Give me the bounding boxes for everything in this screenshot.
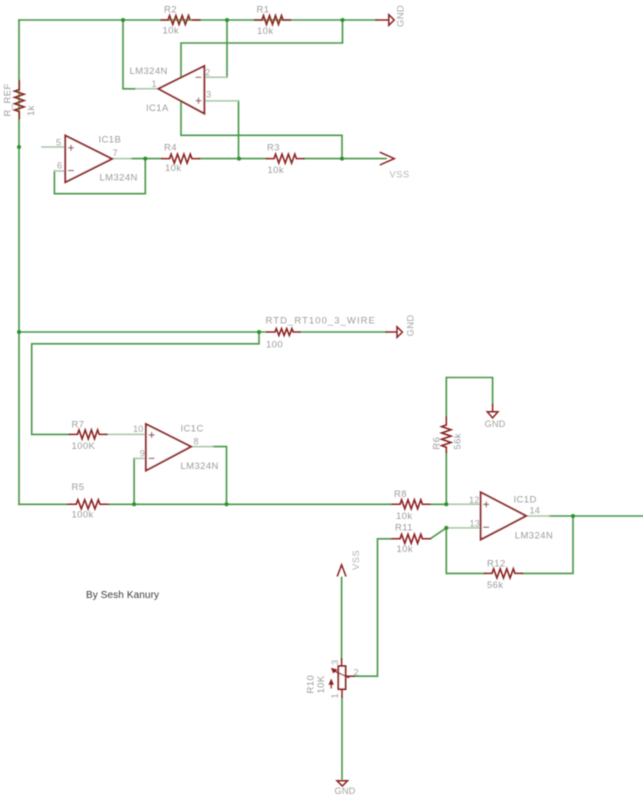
lead R7 bbox=[70, 433, 108, 435]
svg-text:R3: R3 bbox=[267, 143, 280, 154]
pin stub IC1D out bbox=[526, 515, 549, 517]
op-amp IC1B bbox=[65, 136, 112, 183]
junction (134.1,504.3) bbox=[132, 502, 136, 506]
wire R11 diagonal bbox=[431, 528, 447, 539]
wire VSS down to pot bbox=[341, 578, 343, 660]
ground symbol mid bbox=[397, 327, 402, 338]
wire RTD row bbox=[19, 331, 386, 333]
wire left rail to R5 bbox=[19, 503, 68, 505]
resistor R7 zigzag bbox=[77, 430, 99, 439]
wire RTD third wire bbox=[32, 332, 259, 434]
pin stub IC1C out bbox=[191, 446, 213, 448]
svg-text:2: 2 bbox=[205, 68, 210, 78]
svg-text:LM324N: LM324N bbox=[515, 531, 553, 542]
potentiometer R10 wiper arrow bbox=[329, 669, 349, 689]
wire pin9 vertical bbox=[133, 458, 135, 504]
lead R4 bbox=[162, 158, 200, 160]
wire IC1D out row bbox=[549, 515, 643, 517]
lead VSS to pot pin3 bbox=[341, 659, 343, 666]
IC1B plus bbox=[68, 145, 74, 151]
wire pin2 vertical bbox=[226, 20, 228, 77]
resistor R12 zigzag bbox=[492, 569, 515, 578]
svg-text:R6: R6 bbox=[432, 437, 443, 450]
supply VSS arrow up bbox=[337, 565, 346, 577]
svg-text:100k: 100k bbox=[72, 509, 94, 520]
junction (573.5,515) bbox=[571, 514, 575, 518]
svg-text:10k: 10k bbox=[396, 511, 413, 522]
pin stub IC1C pin9 bbox=[134, 457, 146, 459]
lead R12 bbox=[485, 572, 523, 574]
junction (239,158.6) bbox=[237, 157, 241, 161]
lead pot pin1 bbox=[341, 689, 343, 697]
lead R6 bbox=[445, 417, 447, 453]
lead R_REF bbox=[18, 81, 20, 119]
op-amp IC1D bbox=[481, 492, 526, 539]
lead R5 bbox=[68, 503, 108, 505]
IC1D minus bbox=[483, 526, 489, 528]
svg-text:10k: 10k bbox=[397, 544, 414, 555]
pin stub IC1D pin12 bbox=[446, 503, 480, 505]
lead R2 bbox=[161, 19, 200, 21]
wire IC1B feedback loop bbox=[54, 159, 145, 194]
lead R8 bbox=[392, 503, 430, 505]
lead RTD bbox=[267, 331, 300, 333]
pin stub IC1A pin2 bbox=[204, 76, 227, 78]
svg-text:3: 3 bbox=[330, 660, 340, 665]
lead pot wiper bbox=[346, 675, 354, 677]
resistor R1 zigzag bbox=[262, 16, 283, 25]
svg-text:R11: R11 bbox=[395, 523, 413, 534]
junction (446,504.4) bbox=[444, 502, 448, 506]
ground symbol top bbox=[389, 15, 394, 26]
resistor R11 zigzag bbox=[400, 534, 422, 543]
svg-text:1: 1 bbox=[152, 79, 157, 89]
resistor R5 zigzag bbox=[76, 500, 100, 509]
IC1C minus bbox=[149, 457, 155, 459]
potentiometer R10 body bbox=[338, 666, 345, 689]
svg-text:6: 6 bbox=[57, 160, 62, 170]
svg-text:1k: 1k bbox=[26, 105, 37, 116]
svg-text:R7: R7 bbox=[72, 420, 85, 431]
svg-text:R4: R4 bbox=[164, 143, 177, 154]
svg-text:100K: 100K bbox=[72, 441, 96, 452]
svg-text:14: 14 bbox=[530, 505, 541, 515]
junction (226.5,504.3) bbox=[225, 502, 229, 506]
svg-text:R_REF: R_REF bbox=[3, 83, 14, 116]
junction (342.5,20) bbox=[341, 18, 345, 22]
resistor R_REF zigzag bbox=[15, 90, 24, 112]
wire left rail bbox=[18, 20, 20, 504]
junction (123,20) bbox=[121, 18, 125, 22]
lead GND mid bbox=[386, 331, 397, 333]
wire R5 row to R8 bbox=[108, 503, 446, 505]
junction (342,158.6) bbox=[340, 157, 344, 161]
op-amp IC1C bbox=[146, 424, 191, 471]
svg-text:LM324N: LM324N bbox=[130, 66, 168, 77]
svg-text:GND: GND bbox=[395, 5, 406, 27]
lead GND under R6 bbox=[492, 405, 494, 412]
svg-text:13: 13 bbox=[470, 518, 481, 528]
svg-text:R8: R8 bbox=[394, 489, 407, 500]
svg-text:56k: 56k bbox=[487, 580, 504, 591]
svg-text:IC1C: IC1C bbox=[181, 424, 204, 435]
svg-text:LM324N: LM324N bbox=[181, 461, 219, 472]
wire pot to gnd bbox=[341, 697, 343, 779]
svg-text:8: 8 bbox=[194, 436, 199, 446]
junction (227,20) bbox=[225, 18, 229, 22]
op-amp IC1A bbox=[159, 66, 205, 114]
junction (259,332) bbox=[257, 330, 261, 334]
svg-text:IC1D: IC1D bbox=[514, 494, 537, 505]
wire R11 to pot wiper bbox=[354, 539, 392, 676]
svg-text:IC1B: IC1B bbox=[99, 135, 122, 146]
wire IC1C out down bbox=[213, 447, 227, 505]
resistor R2 zigzag bbox=[168, 16, 190, 25]
resistor R8 zigzag bbox=[400, 500, 422, 509]
svg-text:IC1A: IC1A bbox=[146, 103, 169, 114]
svg-text:1: 1 bbox=[330, 693, 340, 698]
svg-text:R2: R2 bbox=[164, 4, 177, 15]
pin stub IC1D pin13 bbox=[446, 527, 480, 529]
svg-text:10K: 10K bbox=[316, 675, 327, 693]
lead R1 bbox=[255, 19, 291, 21]
resistor R4 zigzag bbox=[170, 154, 192, 163]
svg-text:LM324N: LM324N bbox=[100, 173, 138, 184]
svg-text:GND: GND bbox=[485, 419, 506, 429]
svg-text:7: 7 bbox=[113, 148, 118, 158]
junction (19,332) bbox=[17, 330, 21, 334]
lead GND top bbox=[376, 19, 389, 21]
svg-text:5: 5 bbox=[56, 137, 61, 147]
resistor R6 zigzag bbox=[442, 425, 451, 447]
wire R12 loop bbox=[446, 516, 573, 573]
svg-text:By Sesh Kanury: By Sesh Kanury bbox=[86, 590, 159, 601]
wire gnd loop down bbox=[181, 20, 343, 159]
wire pin3 vertical bbox=[238, 101, 240, 159]
svg-text:10k: 10k bbox=[268, 165, 285, 176]
resistor RTD zigzag bbox=[275, 329, 293, 336]
svg-text:10k: 10k bbox=[163, 25, 180, 36]
wire IC1B out row bbox=[131, 158, 386, 160]
wire IC1A output to top rail bbox=[123, 20, 136, 89]
supply VSS arrow right bbox=[380, 152, 395, 165]
svg-text:R12: R12 bbox=[487, 558, 506, 569]
svg-text:GND: GND bbox=[406, 314, 417, 336]
pin stub IC1B pin6 bbox=[54, 170, 65, 172]
svg-text:3: 3 bbox=[206, 90, 211, 100]
svg-text:R1: R1 bbox=[257, 4, 270, 15]
IC1C plus bbox=[149, 432, 155, 438]
svg-text:100: 100 bbox=[266, 339, 283, 350]
wire top rail bbox=[19, 19, 376, 21]
IC1A plus bbox=[196, 98, 202, 104]
svg-text:VSS: VSS bbox=[351, 550, 361, 570]
lead R11 bbox=[392, 538, 431, 540]
svg-text:2: 2 bbox=[354, 668, 359, 678]
pin stub IC1B out bbox=[112, 158, 131, 160]
svg-text:10k: 10k bbox=[257, 26, 274, 37]
svg-text:RTD_RT100_3_WIRE: RTD_RT100_3_WIRE bbox=[266, 316, 376, 327]
pin stub IC1B pin5 bbox=[42, 146, 65, 148]
wire gnd branch right bbox=[446, 378, 492, 405]
svg-text:12: 12 bbox=[469, 495, 480, 505]
svg-text:9: 9 bbox=[140, 449, 145, 459]
svg-text:VSS: VSS bbox=[390, 169, 410, 179]
pin stub IC1A pin3 bbox=[204, 100, 238, 102]
wire R6 branch bbox=[445, 378, 447, 505]
IC1A minus bbox=[196, 76, 202, 78]
pin stub IC1A out bbox=[136, 88, 158, 90]
svg-text:R5: R5 bbox=[72, 482, 85, 493]
ground symbol bottom bbox=[337, 781, 348, 786]
svg-text:GND: GND bbox=[335, 786, 356, 796]
svg-text:10: 10 bbox=[133, 424, 144, 434]
ground symbol under R6 bbox=[487, 412, 498, 418]
svg-text:R10: R10 bbox=[306, 675, 317, 694]
svg-text:56k: 56k bbox=[452, 433, 463, 450]
junction (145.3,158.6) bbox=[143, 157, 147, 161]
IC1D plus bbox=[483, 502, 489, 508]
lead R3 bbox=[267, 158, 305, 160]
pin stub IC1C pin10 bbox=[107, 433, 146, 435]
junction (446,527.9) bbox=[444, 526, 448, 530]
svg-text:10k: 10k bbox=[165, 163, 182, 174]
IC1B minus bbox=[68, 170, 74, 172]
resistor R3 zigzag bbox=[274, 154, 296, 163]
junction (19,147) bbox=[17, 145, 21, 149]
